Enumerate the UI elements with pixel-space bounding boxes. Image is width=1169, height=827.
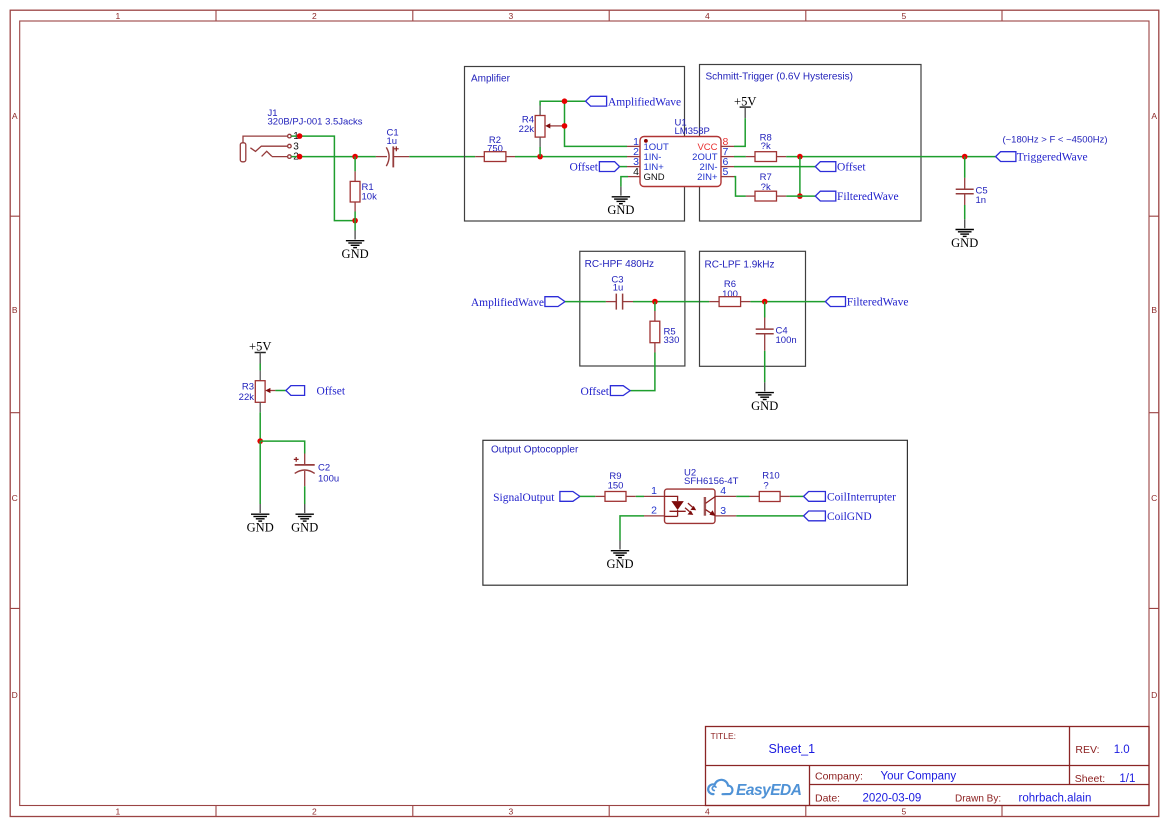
wire R10 to CoilInterrupter (790, 495, 804, 497)
svg-text:1: 1 (651, 485, 657, 497)
logo EasyEDA (708, 780, 802, 799)
svg-text:RC-HPF 480Hz: RC-HPF 480Hz (585, 259, 654, 270)
svg-text:Offset: Offset (317, 386, 346, 398)
svg-text:R3: R3 (242, 382, 254, 393)
svg-text:Company:: Company: (815, 771, 863, 783)
wire output junction to TriggeredWave (965, 156, 996, 158)
ground jack (342, 231, 369, 262)
svg-text:4: 4 (705, 11, 710, 21)
svg-text:?: ? (763, 480, 768, 491)
svg-text:GND: GND (644, 172, 665, 183)
box Schmitt-Trigger (700, 65, 922, 222)
svg-text:A: A (12, 111, 18, 121)
svg-text:5: 5 (902, 11, 907, 21)
svg-text:22k: 22k (239, 392, 255, 403)
netflag Offset (hpf) (610, 386, 630, 396)
svg-text:4: 4 (705, 806, 710, 816)
svg-text:Sheet:: Sheet: (1075, 773, 1105, 785)
wire flag to C3 (565, 301, 606, 303)
connector J1 320B/PJ-001 3.5Jacks (240, 108, 363, 163)
netflag AmplifiedWave (586, 96, 607, 106)
wire U2 pin2 to ground (620, 516, 644, 541)
svg-text:2: 2 (312, 806, 317, 816)
svg-text:320B/PJ-001 3.5Jacks: 320B/PJ-001 3.5Jacks (268, 117, 363, 128)
svg-text:2: 2 (651, 505, 657, 517)
svg-text:A: A (1151, 111, 1157, 121)
svg-text:D: D (12, 690, 18, 700)
power +5V R3 (249, 340, 271, 364)
svg-text:1: 1 (116, 11, 121, 21)
wire R3 bottom to junction (259, 412, 261, 441)
title block (706, 727, 1150, 806)
capacitor C4 100n (756, 318, 797, 351)
wire U1 pin5 to R7 (734, 177, 746, 197)
wire R6 to FilteredWave (750, 301, 825, 303)
svg-text:B: B (1151, 305, 1157, 315)
wire U1 pin7 to R8 (734, 156, 746, 158)
netflag TriggeredWave (996, 152, 1016, 162)
wire C2 bottom (304, 486, 306, 504)
wire U2 pin3 to CoilGND (736, 515, 803, 517)
ground C4 (751, 382, 778, 413)
capacitor C5 1n (956, 178, 988, 206)
box RC-HPF 480Hz (580, 251, 685, 366)
svg-text:SFH6156-4T: SFH6156-4T (684, 476, 739, 487)
ground R3 (247, 504, 274, 535)
svg-text:1: 1 (116, 806, 121, 816)
svg-text:Schmitt-Trigger (0.6V Hysteres: Schmitt-Trigger (0.6V Hysteresis) (706, 72, 853, 83)
svg-text:AmplifiedWave: AmplifiedWave (608, 96, 681, 108)
svg-text:5: 5 (902, 806, 907, 816)
netflag FilteredWave (lpf output) (825, 297, 845, 307)
resistor R9 150 (595, 471, 636, 501)
svg-text:Amplifier: Amplifier (471, 74, 511, 85)
svg-text:150: 150 (608, 481, 624, 492)
svg-text:1.0: 1.0 (1114, 744, 1130, 756)
resistor R2 750 (475, 135, 515, 162)
svg-text:Sheet_1: Sheet_1 (769, 742, 816, 756)
wire VCC pin8 to +5V (734, 118, 745, 146)
resistor R5 330 (650, 311, 679, 353)
capacitor C2 100u (294, 454, 339, 487)
ground U1 (607, 187, 634, 218)
wire R2 to U1 pin2 (515, 156, 627, 158)
svg-text:CoilGND: CoilGND (827, 511, 872, 523)
svg-text:3: 3 (509, 806, 514, 816)
svg-text:Offset: Offset (580, 386, 609, 398)
svg-text:SignalOutput: SignalOutput (493, 492, 555, 504)
netflag CoilGND (804, 511, 826, 521)
svg-text:Your Company: Your Company (881, 771, 957, 783)
svg-text:2020-03-09: 2020-03-09 (863, 792, 922, 804)
netflag FilteredWave (schmitt) (815, 191, 836, 201)
optocoupler U2 SFH6156-4T (644, 468, 739, 524)
wire R7 to FilteredWave flag (786, 195, 815, 197)
svg-text:Date:: Date: (815, 793, 840, 805)
svg-text:3: 3 (509, 11, 514, 21)
netflag Offset (amplifier) (599, 162, 619, 172)
potentiometer R3 22k (239, 371, 276, 413)
wire C3 to R6 (633, 301, 709, 303)
svg-text:1/1: 1/1 (1119, 773, 1135, 785)
svg-text:Offset: Offset (569, 162, 598, 174)
ground C5 (951, 219, 978, 250)
svg-text:AmplifiedWave: AmplifiedWave (471, 297, 544, 309)
wire R1 top (354, 157, 356, 172)
wire R4 bottom (539, 147, 541, 157)
wire junction to ground (259, 441, 261, 504)
svg-text:100n: 100n (776, 335, 797, 346)
svg-text:1u: 1u (387, 136, 398, 147)
svg-text:TITLE:: TITLE: (711, 731, 737, 741)
op-amp U1 LM358P (627, 118, 734, 187)
svg-text:D: D (1151, 690, 1157, 700)
power +5V schmitt (734, 94, 756, 118)
wire R1 bottom (354, 212, 356, 231)
svg-text:330: 330 (664, 335, 680, 346)
svg-text:REV:: REV: (1075, 744, 1099, 756)
wire flag to R9 (580, 495, 595, 497)
svg-text:10k: 10k (362, 191, 378, 202)
resistor R1 10k (350, 171, 377, 211)
capacitor C3 1u (606, 274, 633, 309)
svg-text:3: 3 (720, 505, 726, 517)
wire U2 pin4 to R10 (736, 495, 749, 497)
svg-text:2: 2 (312, 11, 317, 21)
wire C5 top (964, 157, 966, 178)
ground U2 (606, 541, 633, 572)
svg-text:4: 4 (720, 485, 726, 497)
svg-text:?k: ?k (761, 141, 771, 152)
resistor R10 ? (750, 471, 790, 502)
wire R4 top to AmplifiedWave (540, 101, 586, 105)
svg-text:CoilInterrupter: CoilInterrupter (827, 492, 896, 504)
netflag Offset (R3) (286, 386, 305, 396)
svg-text:FilteredWave: FilteredWave (837, 191, 899, 203)
netflag Offset (schmitt) (815, 162, 836, 172)
junction dots jack (297, 133, 303, 139)
svg-text:Output Optocoppler: Output Optocoppler (491, 444, 579, 455)
netflag CoilInterrupter (804, 492, 826, 502)
svg-text:TriggeredWave: TriggeredWave (1017, 152, 1088, 164)
box Amplifier (465, 67, 685, 222)
svg-text:B: B (12, 305, 18, 315)
svg-text:4: 4 (633, 166, 639, 178)
wire U1 pin6 to Offset flag (734, 166, 815, 168)
wire +5V to R3 (259, 364, 261, 371)
box RC-LPF 1.9kHz (700, 251, 806, 366)
wire jack pin1 to ground run (291, 136, 355, 221)
ground C2 (291, 504, 318, 535)
wire R8 to output junction (786, 156, 965, 158)
wire C5 bottom (964, 205, 966, 219)
svg-text:Drawn By:: Drawn By: (955, 794, 1001, 805)
svg-text:22k: 22k (519, 124, 535, 135)
potentiometer R4 22k (519, 106, 565, 148)
svg-text:Offset: Offset (837, 162, 866, 174)
svg-text:2IN+: 2IN+ (697, 172, 718, 183)
box Output Optocoppler (483, 440, 908, 585)
svg-text:rohrbach.alain: rohrbach.alain (1019, 792, 1092, 804)
svg-text:EasyEDA: EasyEDA (736, 782, 802, 799)
svg-text:C2: C2 (318, 463, 330, 474)
svg-text:5: 5 (723, 166, 729, 178)
resistor R7 ?k (746, 172, 786, 201)
wire R9 to U2 pin1 (636, 495, 644, 497)
wire C1 to R2 (409, 156, 475, 158)
svg-text:RC-LPF 1.9kHz: RC-LPF 1.9kHz (705, 259, 775, 270)
svg-text:100u: 100u (318, 473, 339, 484)
wire U1 pin4 to ground (621, 177, 628, 187)
capacitor C1 1u (376, 128, 409, 168)
resistor R8 ?k (746, 133, 786, 162)
svg-text:LM358P: LM358P (675, 126, 710, 137)
wire C4 bottom (764, 351, 766, 383)
wire R5 top (654, 302, 656, 311)
wire junction to C2 (260, 441, 305, 453)
svg-text:(~180Hz > F < ~4500Hz): (~180Hz > F < ~4500Hz) (1002, 134, 1107, 145)
svg-text:C: C (12, 493, 18, 503)
svg-text:1u: 1u (613, 283, 624, 294)
svg-text:1n: 1n (976, 195, 987, 206)
wire hysteresis vertical (799, 157, 801, 197)
resistor R6 100 (709, 279, 750, 307)
svg-text:FilteredWave: FilteredWave (847, 297, 909, 309)
wire feedback vertical (565, 101, 628, 146)
wire jack pin2 main signal (291, 156, 376, 158)
svg-text:C: C (1151, 493, 1157, 503)
wire R5 to Offset flag (630, 353, 655, 391)
wire wiper to Offset flag (275, 390, 286, 392)
wire C4 top (764, 302, 766, 318)
